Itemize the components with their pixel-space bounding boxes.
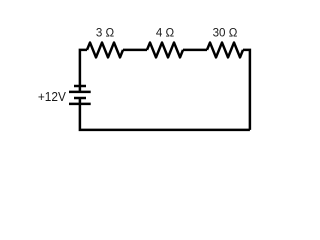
wire: R3 lead to top-right corner and right rail down: [243, 50, 250, 130]
battery plate long (top cell positive): [69, 91, 91, 94]
svg-text:+12V: +12V: [38, 89, 66, 104]
resistor R3 30Ω zigzag: [207, 43, 243, 58]
resistor R1 3Ω zigzag: [87, 43, 123, 58]
wire: between R1 and R2: [123, 49, 147, 52]
svg-text:30 Ω: 30 Ω: [213, 26, 238, 39]
wire: bottom rail and left rail up to battery lower short plate: [80, 98, 250, 130]
wire: between R2 and R3: [183, 49, 207, 52]
battery plate short (top cell negative, crossed by wire): [74, 85, 86, 88]
battery plate short (bottom cell negative): [74, 97, 86, 100]
battery B1: [69, 86, 91, 104]
resistor R2 4Ω zigzag: [147, 43, 183, 58]
wire: left rail from battery top plate up to top-left corner, lead into R1: [80, 50, 87, 92]
svg-text:3 Ω: 3 Ω: [96, 26, 115, 39]
battery plate long (bottom cell positive, crossed by wire): [69, 103, 91, 106]
svg-text:4 Ω: 4 Ω: [156, 26, 175, 39]
